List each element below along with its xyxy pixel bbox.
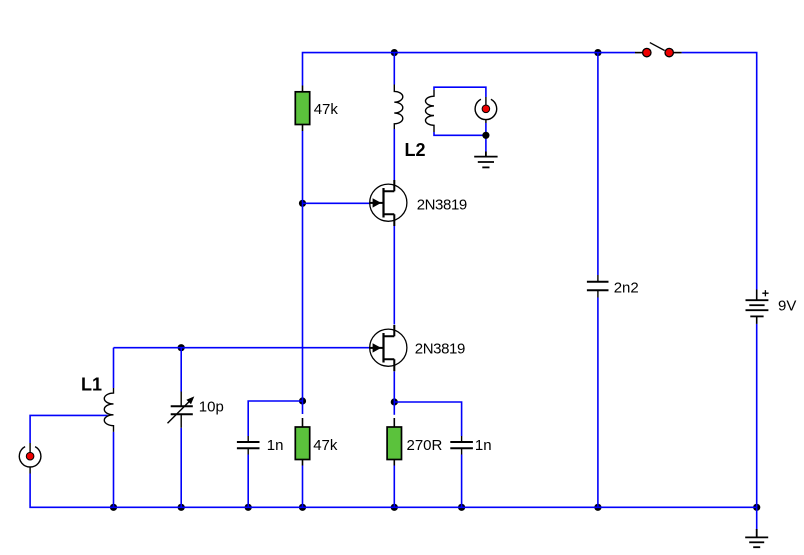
capacitor C2 1n plate bottom bbox=[450, 447, 473, 449]
wire C10p branch top bbox=[180, 348, 182, 392]
svg-text:L2: L2 bbox=[405, 140, 426, 160]
variable capacitor C10p lead bottom bbox=[180, 414, 182, 428]
wire bottom rail bbox=[30, 474, 757, 508]
variable capacitor C10p arrow bbox=[168, 399, 192, 423]
connector J2 outer ring bbox=[475, 99, 497, 119]
node bottom rail at R4 bbox=[391, 504, 398, 511]
connector J1 outer ring bbox=[19, 447, 41, 467]
transistor Q1 gate arrow bbox=[373, 198, 382, 207]
node source of Q2 bbox=[391, 398, 398, 405]
transistor Q2 2N3819 body circle bbox=[370, 329, 407, 366]
capacitor C1 1n lead bottom bbox=[247, 448, 249, 454]
node tank at 10p bbox=[178, 344, 185, 351]
wire bias node down to R3 bbox=[302, 401, 304, 414]
resistor R4 270R body bbox=[387, 427, 401, 460]
wire L1 branch top bbox=[113, 348, 115, 388]
resistor R1 47k lead top bbox=[302, 86, 304, 92]
node bottom rail at right rail bbox=[753, 504, 760, 511]
wire source node to C1n right bbox=[394, 402, 461, 436]
transistor Q1 drain link bbox=[384, 180, 395, 191]
wire bottom-right ground drop bbox=[756, 507, 758, 530]
node bottom rail at R3 bbox=[299, 504, 306, 511]
svg-text:9V: 9V bbox=[778, 298, 796, 315]
wire C10p branch bottom bbox=[180, 428, 182, 508]
resistor R3 47k body bbox=[295, 427, 309, 460]
svg-text:47k: 47k bbox=[313, 437, 338, 454]
transistor Q1 2N3819 body circle bbox=[370, 184, 407, 221]
transistor Q1 gate lead bbox=[370, 202, 384, 204]
battery B1 lead top bbox=[756, 290, 758, 301]
wire L2 to Q1 drain bbox=[393, 129, 395, 180]
resistor R4 270R lead top bbox=[393, 418, 395, 427]
ground GND2 (bottom right) bbox=[745, 529, 768, 547]
transistor Q1 source link bbox=[384, 214, 395, 226]
svg-text:L1: L1 bbox=[81, 375, 102, 395]
node bottom rail at 10p bbox=[178, 504, 185, 511]
inductor L2 secondary coil bbox=[425, 90, 434, 132]
wire L2 secondary bottom link bbox=[434, 132, 486, 135]
wire tank rail to gate of Q2 bbox=[114, 347, 370, 349]
wire Q2 source to node bbox=[393, 371, 395, 415]
wire Q1 source to Q2 drain bbox=[393, 226, 395, 325]
transistor Q2 gate arrow bbox=[373, 343, 382, 352]
connector J2 stub top bbox=[485, 97, 487, 105]
capacitor C2 1n lead bottom bbox=[461, 448, 463, 454]
battery B1 plate 1 long bbox=[746, 299, 769, 301]
wire below R3 to bottom rail bbox=[302, 466, 304, 508]
connector J2 stub bottom bbox=[485, 119, 487, 123]
capacitor C2 1n lead top bbox=[461, 436, 463, 442]
capacitor C3 2n2 plate bottom bbox=[587, 289, 609, 291]
switch SW1 lead left bbox=[635, 52, 643, 54]
resistor R1 47k body bbox=[295, 92, 309, 125]
capacitor C3 2n2 lead bottom bbox=[597, 290, 599, 297]
battery B1 plate 2 short bbox=[749, 304, 764, 306]
variable capacitor C10p plate bottom bbox=[171, 413, 193, 415]
switch SW1 lever bbox=[650, 43, 665, 51]
capacitor C1 1n plate top bbox=[237, 441, 260, 443]
wire L2 secondary top link bbox=[434, 87, 486, 97]
node bottom rail at C1 bbox=[245, 504, 252, 511]
wire connector J2 to ground bbox=[485, 123, 487, 152]
svg-text:1n: 1n bbox=[475, 437, 492, 454]
battery B1 lead bottom bbox=[756, 316, 758, 324]
node bottom rail at C2 bbox=[458, 504, 465, 511]
svg-text:2N3819: 2N3819 bbox=[415, 340, 465, 357]
capacitor C3 2n2 lead top bbox=[597, 275, 599, 282]
node gate of Q1 bbox=[299, 200, 306, 207]
ground GND1 bbox=[474, 152, 497, 168]
switch SW1 contact right bbox=[665, 48, 673, 56]
wire L1 branch bottom bbox=[113, 432, 115, 507]
node bottom rail at 2n2 bbox=[594, 504, 601, 511]
connector J1 pin bbox=[26, 452, 34, 460]
connector J1 stub bottom bbox=[29, 467, 31, 474]
wire below R4 to bottom rail bbox=[393, 466, 395, 508]
capacitor C2 1n plate top bbox=[450, 441, 473, 443]
resistor R1 47k lead bottom bbox=[302, 125, 304, 132]
node bottom rail at L1 bbox=[110, 504, 117, 511]
battery B1 plate 3 long bbox=[746, 309, 769, 311]
connector J2 pin bbox=[482, 105, 490, 113]
inductor L2 primary coil bbox=[394, 85, 403, 130]
wire below C2n2 to bottom rail bbox=[597, 298, 599, 508]
capacitor C1 1n lead top bbox=[247, 436, 249, 442]
wire bias column below R1 to gate node and down to node bbox=[302, 131, 304, 401]
wire top rail right of switch to right rail down to battery bbox=[682, 53, 757, 290]
svg-text:1n: 1n bbox=[267, 437, 284, 454]
wire top rail (left corner down to R1, along top to switch) bbox=[303, 53, 636, 86]
svg-text:2n2: 2n2 bbox=[614, 280, 639, 297]
wire gate of Q1 bbox=[303, 202, 370, 204]
inductor L1 coil bbox=[104, 388, 113, 432]
node top rail at L2 bbox=[391, 49, 398, 56]
transistor Q1 channel bar bbox=[382, 188, 384, 218]
node bias bottom bbox=[299, 397, 306, 404]
transistor Q2 source link bbox=[384, 359, 395, 371]
transistor Q2 channel bar bbox=[382, 333, 384, 363]
node below J2 bbox=[482, 132, 489, 139]
wire below C1n left to bottom rail bbox=[247, 455, 249, 508]
wire right rail below battery to bottom rail bbox=[756, 324, 758, 507]
svg-text:10p: 10p bbox=[199, 399, 224, 416]
wire below C1n right to bottom rail bbox=[461, 455, 463, 508]
switch SW1 contact left bbox=[643, 48, 651, 56]
svg-text:47k: 47k bbox=[314, 101, 339, 118]
node top rail at 2n2 bbox=[594, 49, 601, 56]
switch SW1 lead right bbox=[673, 52, 681, 54]
wire top rail to C2n2 bbox=[597, 53, 599, 275]
capacitor C3 2n2 plate top bbox=[587, 281, 609, 283]
resistor R3 47k lead bottom bbox=[302, 460, 304, 466]
wire top rail to L2 bbox=[393, 53, 395, 85]
battery B1 plate 4 short bbox=[750, 315, 763, 317]
resistor R3 47k lead top bbox=[302, 418, 304, 427]
battery B1 plus sign bbox=[762, 290, 768, 296]
wire node to C1n left bbox=[248, 401, 302, 436]
capacitor C1 1n plate bottom bbox=[237, 447, 260, 449]
variable capacitor C10p lead top bbox=[180, 392, 182, 407]
transistor Q2 drain link bbox=[384, 325, 395, 336]
resistor R4 270R lead bottom bbox=[393, 460, 395, 466]
variable capacitor C10p plate top bbox=[171, 405, 193, 407]
svg-text:2N3819: 2N3819 bbox=[417, 197, 467, 214]
transistor Q2 gate lead bbox=[370, 347, 384, 349]
wire left connector to L1 tap bbox=[30, 415, 108, 443]
svg-text:270R: 270R bbox=[407, 437, 443, 454]
connector J1 stub top bbox=[29, 443, 31, 452]
